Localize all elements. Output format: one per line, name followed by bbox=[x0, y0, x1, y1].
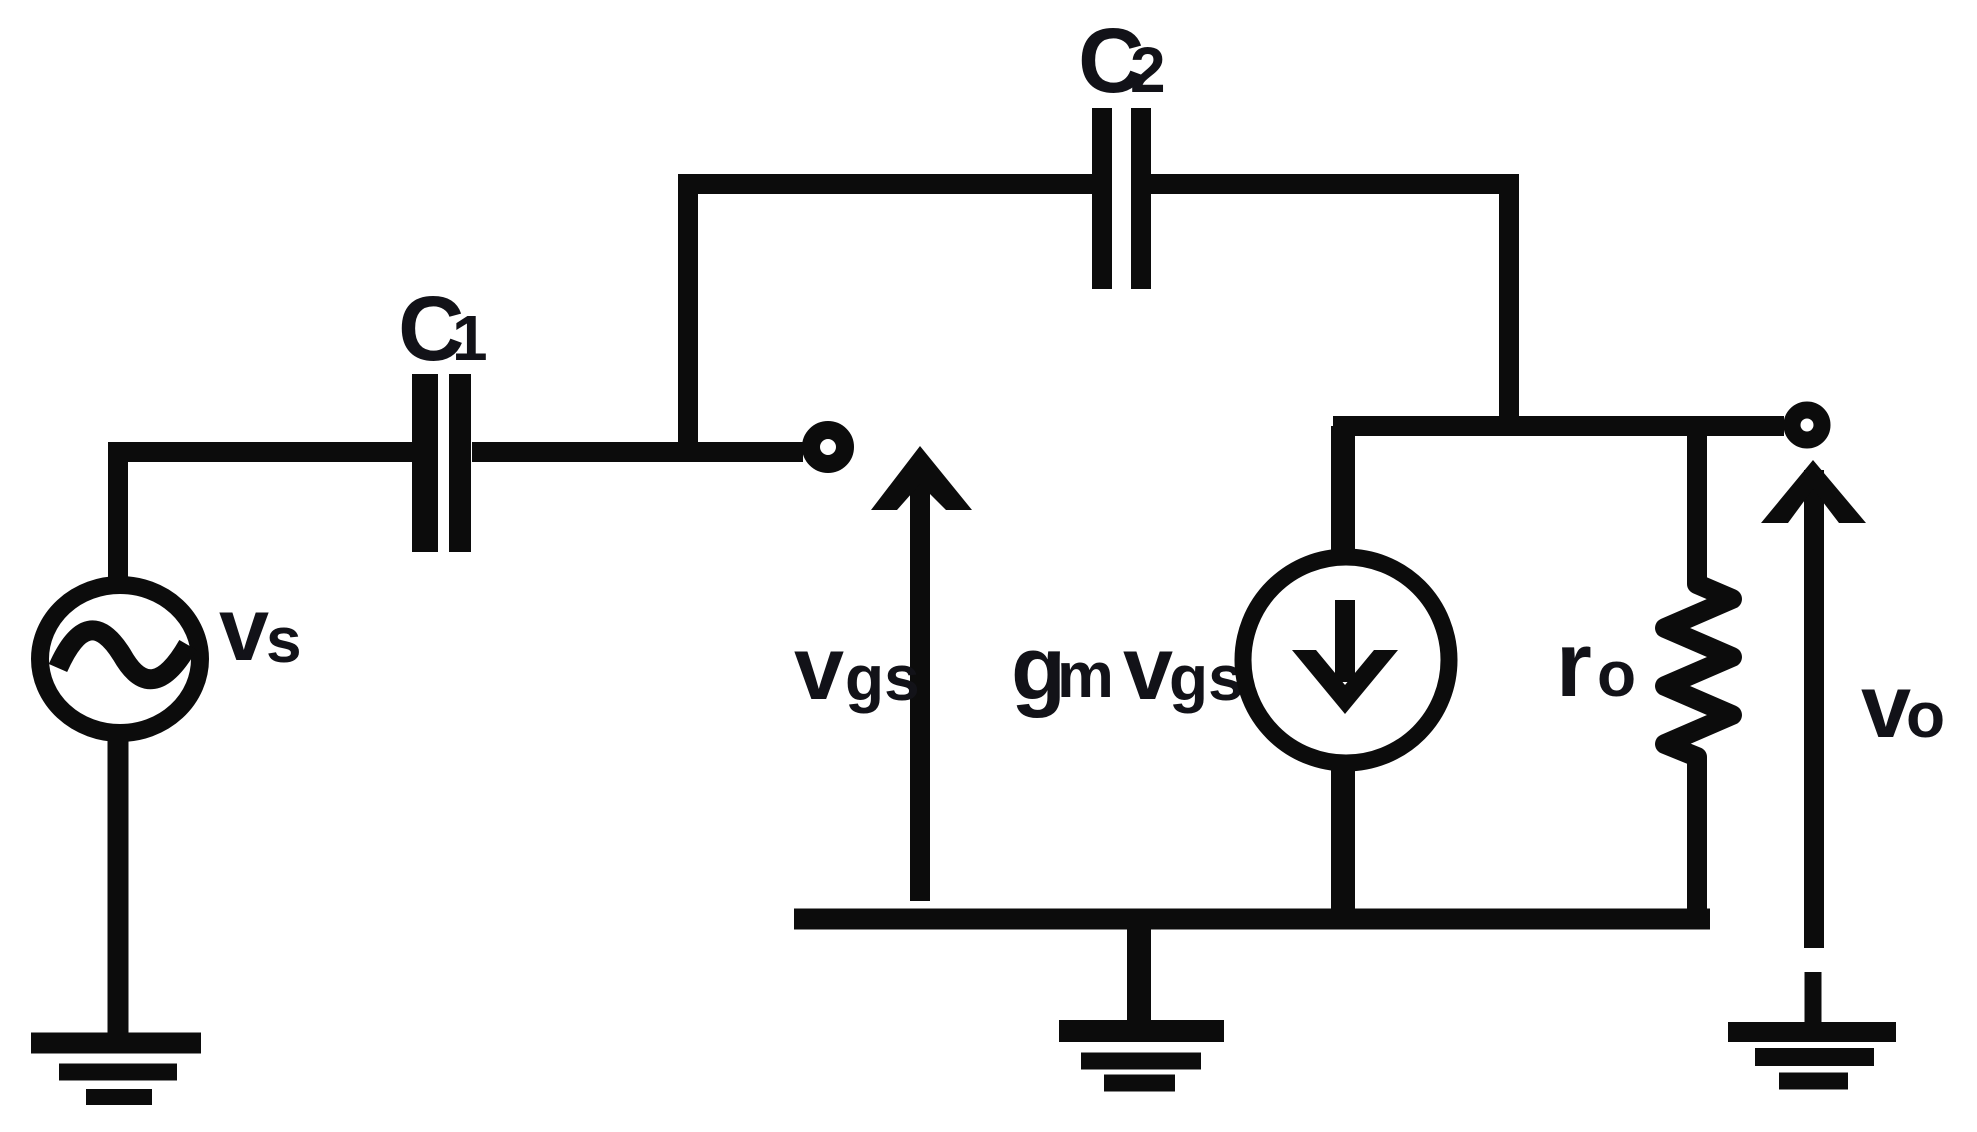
wire: current source top lead bbox=[1331, 426, 1355, 560]
capacitor C1 plates bbox=[412, 374, 438, 552]
svg-text:gs: gs bbox=[845, 642, 920, 714]
arrow vo (head) bbox=[1761, 460, 1866, 523]
current source arrow shaft bbox=[1335, 600, 1355, 682]
wire: C1 to input node bbox=[472, 442, 803, 462]
voltage source sine wave bbox=[58, 630, 188, 679]
arrow vgs (shaft) bbox=[910, 462, 930, 901]
svg-text:v: v bbox=[1123, 619, 1173, 719]
svg-text:v: v bbox=[794, 619, 844, 719]
ground (middle) bbox=[1059, 919, 1224, 1083]
svg-text:s: s bbox=[266, 604, 302, 676]
wire: junction up to top rail (left side of C2 loop) bbox=[688, 184, 1092, 460]
wire: source bottom bbox=[108, 730, 129, 1040]
wire: source top wire to C1 bbox=[118, 452, 413, 592]
svg-text:gs: gs bbox=[1169, 642, 1244, 714]
wire: top rail right of C2 down to output rail bbox=[1151, 184, 1509, 432]
ground (left, under vs) bbox=[31, 1043, 201, 1097]
svg-text:2: 2 bbox=[1130, 34, 1166, 106]
arrow vgs (head) bbox=[871, 446, 972, 510]
node (output, open circle) bbox=[1792, 410, 1822, 440]
current source circle bbox=[1243, 557, 1449, 763]
svg-text:r: r bbox=[1556, 614, 1592, 716]
svg-text:v: v bbox=[1861, 657, 1911, 757]
capacitor C2 plates bbox=[1092, 108, 1112, 289]
svg-text:1: 1 bbox=[452, 302, 488, 374]
resistor ro (zigzag) bbox=[1665, 426, 1732, 925]
svg-text:v: v bbox=[219, 580, 269, 680]
bottom rail bbox=[794, 909, 1710, 930]
arrow vo (shaft) bbox=[1804, 470, 1824, 948]
voltage source VS circle bbox=[40, 585, 200, 733]
wire: output rail bbox=[1333, 416, 1784, 436]
svg-text:m: m bbox=[1057, 639, 1114, 711]
ground (right, under vo) bbox=[1728, 972, 1896, 1081]
current source arrow head (down) bbox=[1292, 650, 1398, 714]
wire: current source bottom lead bbox=[1331, 760, 1355, 925]
svg-text:o: o bbox=[1597, 638, 1636, 710]
svg-text:o: o bbox=[1906, 679, 1945, 751]
node (input, open circle) bbox=[811, 430, 845, 464]
